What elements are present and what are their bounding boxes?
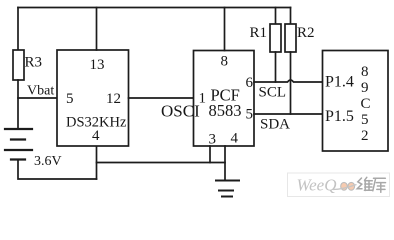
svg-text:2: 2	[361, 128, 369, 144]
resistor R2	[285, 8, 296, 115]
resistor R3	[13, 50, 24, 80]
svg-text:SCL: SCL	[259, 85, 287, 101]
wire: SDA net	[254, 113, 323, 115]
svg-text:8: 8	[361, 64, 369, 80]
svg-text:13: 13	[90, 57, 105, 73]
svg-text:12: 12	[106, 91, 121, 107]
svg-text:5: 5	[361, 112, 369, 128]
svg-text:P1.5: P1.5	[325, 108, 354, 125]
svg-text:1: 1	[199, 91, 207, 107]
svg-text:5: 5	[246, 107, 254, 123]
resistor R1	[270, 8, 281, 83]
wire: R3 bottom to battery	[17, 80, 19, 129]
IC U1 DS32KHz body	[57, 50, 129, 146]
svg-text:SDA: SDA	[260, 117, 290, 133]
svg-text:5: 5	[66, 91, 74, 107]
svg-text:P1.4: P1.4	[325, 74, 354, 91]
wire: pin 13 to top rail	[96, 8, 98, 51]
wire: PCF pin 8 to top rail	[224, 8, 226, 51]
wire: battery negative down and right	[18, 160, 97, 180]
label 89C52 vertical	[361, 64, 371, 144]
wire: PCF pin 4 drop to ground	[224, 146, 226, 181]
IC U2 PCF8583 body	[194, 51, 255, 147]
svg-text:3: 3	[209, 132, 217, 148]
svg-text:6: 6	[246, 75, 254, 91]
svg-text:4: 4	[231, 131, 239, 147]
wire: DS32KHz pin 4 drop	[96, 146, 98, 179]
svg-text:R1: R1	[250, 25, 268, 41]
wire: Vbat net to DS32KHz pin 5	[18, 97, 57, 99]
svg-text:4: 4	[92, 128, 100, 144]
simplified CJK KU	[373, 178, 386, 192]
battery BT1 3.6V	[5, 129, 32, 160]
wire: left rail upper (rail to R3)	[17, 8, 19, 51]
svg-text:Vbat: Vbat	[27, 84, 54, 99]
svg-text:C: C	[361, 96, 371, 112]
svg-text:R3: R3	[25, 55, 43, 71]
svg-text:3.6V: 3.6V	[34, 154, 62, 169]
wire: top VCC rail	[18, 7, 291, 9]
svg-text:8583: 8583	[209, 101, 242, 120]
wire: SCL net with crossover hump	[254, 80, 323, 82]
svg-text:9: 9	[361, 80, 369, 96]
svg-text:WeeQ: WeeQ	[297, 175, 337, 194]
wire: ground rail	[97, 162, 226, 164]
ground	[216, 181, 239, 197]
wire: PCF pin 3 drop to ground rail	[209, 146, 211, 163]
svg-text:8: 8	[221, 54, 229, 70]
watermark WeeQoo	[288, 173, 390, 197]
svg-text:OSCI: OSCI	[161, 102, 200, 121]
wire: OSCI net (pin 12 to PCF pin 1)	[129, 97, 194, 99]
IC U3 89C52 body	[323, 51, 389, 152]
simplified CJK WEI	[357, 177, 372, 190]
svg-text:R2: R2	[297, 25, 315, 41]
